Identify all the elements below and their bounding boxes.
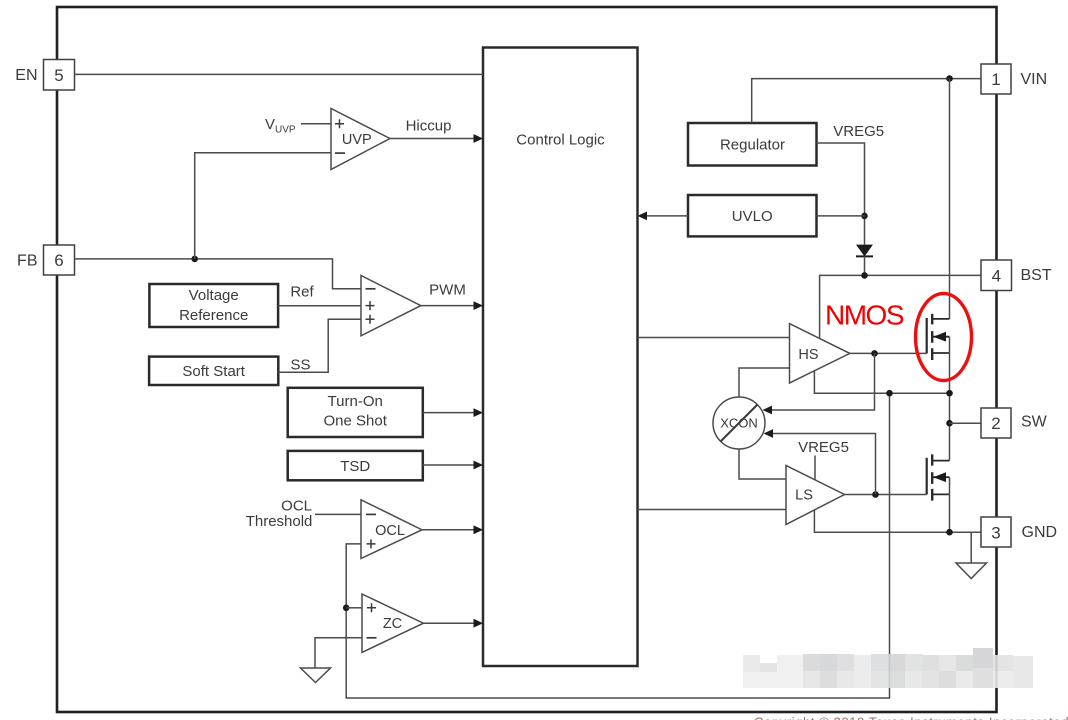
wire VUVP to UVP non-inverting input bbox=[301, 123, 331, 125]
pin 1 VIN bbox=[981, 64, 1047, 94]
svg-text:Voltage: Voltage bbox=[189, 287, 239, 304]
wire LS driver output to Q2 gate bbox=[845, 494, 927, 496]
wire Control Logic to LS driver input bbox=[638, 509, 787, 511]
wire OCL Threshold to OCL inverting input bbox=[315, 513, 361, 515]
svg-text:One Shot: One Shot bbox=[324, 413, 388, 430]
wire ZC non-inverting input bbox=[346, 607, 362, 609]
svg-text:2: 2 bbox=[991, 414, 1000, 433]
svg-text:Soft Start: Soft Start bbox=[182, 363, 245, 380]
block Turn-On One Shot bbox=[288, 388, 423, 437]
junction SW node bbox=[946, 390, 953, 397]
svg-text:6: 6 bbox=[54, 251, 63, 270]
wire SW node to pin 2 bbox=[950, 422, 982, 424]
op-amp UVP comparator bbox=[331, 109, 390, 170]
wire GND net LS return to pin 3 bbox=[814, 510, 981, 532]
svg-text:Regulator: Regulator bbox=[720, 136, 785, 153]
svg-text:NMOS: NMOS bbox=[825, 299, 904, 330]
svg-text:Reference: Reference bbox=[179, 307, 248, 324]
label OCL Threshold bbox=[246, 498, 313, 531]
block UVLO bbox=[688, 195, 817, 236]
pin 2 SW bbox=[981, 408, 1048, 438]
block Voltage Reference bbox=[149, 284, 278, 327]
svg-text:XCON: XCON bbox=[720, 416, 758, 431]
svg-text:Threshold: Threshold bbox=[246, 513, 313, 530]
junction LS gate node bbox=[872, 491, 879, 498]
wire BST net to HS driver supply bbox=[820, 275, 981, 337]
junction SW pin node bbox=[946, 420, 953, 427]
op-amp PWM comparator bbox=[361, 276, 421, 336]
wire OCL output to Control Logic bbox=[422, 525, 483, 534]
svg-text:BST: BST bbox=[1021, 267, 1052, 284]
wire UVLO to Control Logic bbox=[638, 212, 689, 221]
pin 4 BST bbox=[981, 260, 1052, 291]
svg-text:3: 3 bbox=[991, 523, 1000, 542]
diode D1 bootstrap bbox=[856, 245, 873, 276]
wire FB node to UVP inverting input bbox=[195, 153, 331, 259]
wire UVLO to VREG5 net bbox=[817, 215, 865, 217]
wire Turn-On One Shot to Control Logic bbox=[423, 408, 483, 417]
ground symbol at GND pin bbox=[956, 532, 987, 578]
wire XCON to LS driver bbox=[739, 449, 786, 479]
wire FB to PWM inverting input bbox=[75, 259, 361, 289]
svg-text:4: 4 bbox=[992, 266, 1001, 285]
op-amp OCL comparator bbox=[361, 500, 422, 559]
junction FB node bbox=[191, 256, 198, 263]
svg-text:Hiccup: Hiccup bbox=[406, 118, 452, 135]
svg-text:Control Logic: Control Logic bbox=[516, 131, 605, 148]
wire current sense net OCL/ZC inputs to SW node bbox=[346, 393, 889, 698]
wire EN to Control Logic bbox=[75, 73, 483, 75]
svg-text:5: 5 bbox=[54, 66, 63, 85]
wire Hiccup UVP output to Control Logic bbox=[390, 118, 483, 143]
transistor Q2 low-side NMOS bbox=[927, 454, 950, 532]
block U-CTRL Control Logic bbox=[483, 48, 638, 667]
label VREG5 LS driver supply bbox=[798, 439, 849, 480]
svg-text:1: 1 bbox=[991, 70, 1000, 89]
svg-text:EN: EN bbox=[15, 67, 37, 84]
wire VREG5 net Regulator to diode bbox=[817, 143, 865, 245]
pin 6 FB bbox=[17, 245, 74, 275]
watermark bbox=[743, 648, 1033, 688]
svg-text:VREG5: VREG5 bbox=[833, 123, 884, 140]
svg-text:PWM: PWM bbox=[429, 282, 466, 299]
wire VIN node down to high-side NMOS drain bbox=[949, 79, 951, 319]
pin 3 GND bbox=[981, 517, 1057, 547]
svg-text:SW: SW bbox=[1021, 414, 1048, 431]
svg-text:GND: GND bbox=[1022, 524, 1058, 541]
wire XCON to HS driver bbox=[739, 368, 790, 397]
transistor Q1 high-side NMOS bbox=[927, 314, 950, 461]
XCON cross-conduction block bbox=[713, 397, 765, 449]
op-amp HS driver bbox=[790, 324, 850, 383]
svg-text:SS: SS bbox=[290, 357, 310, 374]
block TSD bbox=[288, 451, 423, 480]
svg-text:Ref: Ref bbox=[290, 284, 314, 301]
svg-text:HS: HS bbox=[798, 347, 818, 363]
junction GND node bbox=[946, 529, 953, 536]
svg-text:OCL: OCL bbox=[281, 498, 312, 515]
junction HS gate node bbox=[871, 350, 878, 357]
annotation red ellipse around Q1 bbox=[916, 294, 972, 381]
op-amp LS driver bbox=[786, 466, 845, 525]
wire TSD to Control Logic bbox=[423, 461, 483, 470]
wire Control Logic to HS driver input bbox=[638, 337, 790, 339]
svg-text:TSD: TSD bbox=[340, 458, 370, 475]
wire HS driver output to Q1 gate bbox=[850, 352, 927, 354]
svg-text:VUVP: VUVP bbox=[265, 116, 296, 136]
junction ZC non-inverting tap bbox=[343, 605, 350, 612]
wire ZC inverting input to ground bbox=[315, 638, 362, 668]
wire VIN net to Regulator bbox=[752, 79, 981, 123]
junction VIN node bbox=[946, 75, 953, 82]
junction VREG5 UVLO tap bbox=[861, 213, 868, 220]
svg-text:VIN: VIN bbox=[1021, 71, 1048, 88]
wire Ref to PWM input bbox=[278, 284, 361, 306]
svg-text:ZC: ZC bbox=[383, 616, 402, 632]
wire HS driver return to SW node bbox=[814, 371, 949, 393]
svg-text:VREG5: VREG5 bbox=[798, 439, 849, 456]
wire ZC output to Control Logic bbox=[423, 619, 483, 628]
svg-text:Copyright © 2019 Texas Instrum: Copyright © 2019 Texas Instruments Incor… bbox=[754, 715, 1068, 720]
op-amp ZC comparator bbox=[362, 594, 423, 652]
svg-text:FB: FB bbox=[17, 253, 37, 270]
wire HS gate node to XCON bbox=[763, 353, 875, 414]
svg-text:Turn-On: Turn-On bbox=[328, 393, 383, 410]
svg-text:UVP: UVP bbox=[342, 132, 372, 148]
junction BST diode node bbox=[861, 272, 868, 279]
wire SS to PWM input bbox=[278, 319, 361, 373]
wire PWM output to Control Logic bbox=[421, 282, 483, 311]
ground symbol at ZC bbox=[301, 668, 331, 683]
wire LS gate node to XCON bbox=[764, 429, 876, 494]
svg-text:UVLO: UVLO bbox=[732, 208, 773, 225]
junction SW sense node bbox=[886, 390, 893, 397]
svg-text:LS: LS bbox=[795, 488, 813, 504]
block Regulator bbox=[688, 123, 817, 166]
svg-text:OCL: OCL bbox=[375, 523, 405, 539]
pin 5 EN bbox=[15, 60, 74, 91]
block Soft Start bbox=[149, 357, 278, 385]
